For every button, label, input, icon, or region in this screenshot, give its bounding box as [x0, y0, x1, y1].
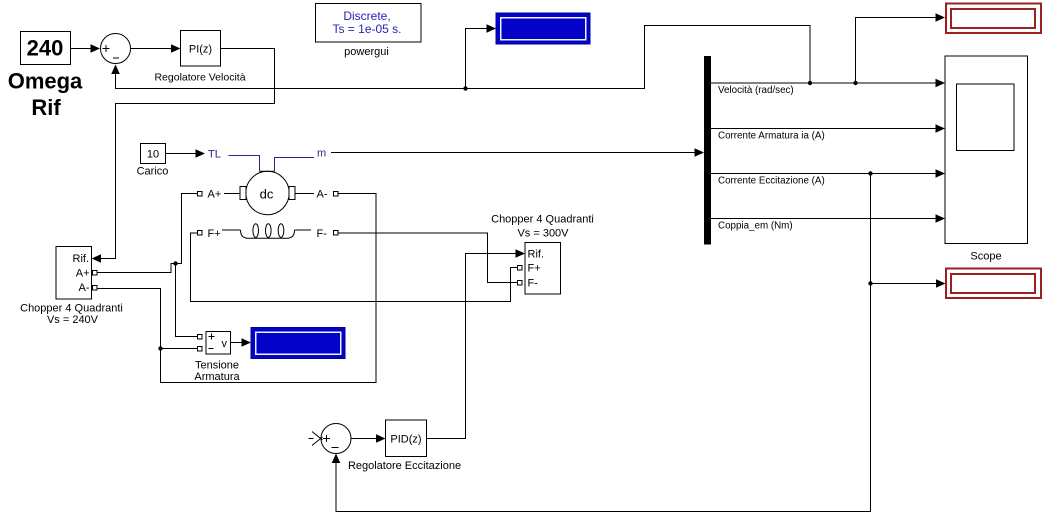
svg-text:A+: A+: [76, 268, 90, 280]
signal Coppia_em line: [711, 214, 945, 231]
svg-text:Coppia_em (Nm): Coppia_em (Nm): [718, 221, 793, 232]
node A- junction: [158, 346, 162, 350]
svg-text:A-: A-: [79, 282, 90, 294]
svg-text:240: 240: [27, 36, 64, 61]
field wire: machine F+ to chopper300 F+: [191, 233, 518, 302]
field inductor coil L1: [222, 224, 311, 238]
PID(z) field controller: [386, 420, 427, 457]
node field current tap (to red display2): [868, 281, 872, 285]
svg-text:Armatura: Armatura: [194, 371, 240, 383]
display2 (armature voltage display): [251, 328, 345, 359]
svg-text:Rif.: Rif.: [73, 253, 90, 265]
wire Velocita tap to red display1: [856, 13, 946, 83]
wire voltmeter to display2: [231, 338, 252, 347]
svg-text:Corrente Eccitazione (A): Corrente Eccitazione (A): [718, 176, 825, 187]
svg-text:10: 10: [147, 149, 159, 161]
scope block: [945, 56, 1028, 244]
dc machine M1: [240, 171, 295, 214]
svg-text:Rif: Rif: [31, 95, 61, 120]
svg-text:A-: A-: [317, 189, 328, 201]
red display D2 (field current): [946, 269, 1041, 299]
svg-text:Tensione: Tensione: [195, 360, 239, 372]
machine port A-: [295, 189, 338, 201]
signal Corrente Eccitazione line: [711, 169, 945, 186]
wire machine m to bus: [331, 148, 704, 157]
signal Velocita line: [711, 79, 945, 96]
svg-text:m: m: [317, 148, 326, 160]
wire Carico to TL: [166, 149, 206, 158]
svg-text:Corrente Armatura ia (A): Corrente Armatura ia (A): [718, 131, 825, 142]
chopper U2 (Chopper 4 Quadranti Vs=300V): [518, 243, 561, 295]
wire PID(z) to chopper300 Rif: [427, 249, 526, 438]
field wire: machine F- to chopper300 F-: [338, 233, 518, 283]
constant block 240: [21, 32, 71, 65]
machine port A+: [198, 189, 241, 201]
wire S2 to PID(z): [351, 434, 386, 443]
node on Velocita line (display tap): [853, 81, 857, 85]
svg-text:F+: F+: [208, 228, 221, 240]
node A+ junction: [173, 261, 177, 265]
bus selector bar: [704, 56, 711, 245]
svg-text:F+: F+: [528, 263, 541, 275]
svg-text:PID(z): PID(z): [390, 434, 421, 446]
label Tensione Armatura: [194, 360, 240, 384]
wire feedback to display1: [466, 24, 497, 88]
sum junction S1 (speed error): [101, 34, 131, 64]
label Chopper 4 Quadranti Vs=240V: [20, 303, 123, 327]
svg-text:Ts = 1e-05 s.: Ts = 1e-05 s.: [332, 22, 401, 36]
blue wire machine to m: [275, 158, 315, 172]
svg-text:F-: F-: [528, 278, 539, 290]
svg-text:TL: TL: [208, 149, 221, 161]
svg-text:Chopper 4 Quadranti: Chopper 4 Quadranti: [491, 214, 594, 226]
chopper U1 (Chopper 4 Quadranti Vs=240V): [56, 247, 97, 300]
svg-text:Regolatore Velocità: Regolatore Velocità: [154, 72, 245, 84]
machine port F+: [198, 228, 221, 240]
wire tap to red display2: [871, 279, 946, 288]
sum junction S2 (field current error): [321, 424, 351, 454]
svg-text:A+: A+: [208, 189, 222, 201]
armature wire: chopper240 A+ to machine A+ and voltmeter +: [97, 194, 198, 337]
svg-text:Regolatore Eccitazione: Regolatore Eccitazione: [348, 460, 461, 472]
field current feedback wire to sum S2: [332, 174, 871, 512]
svg-text:Discrete,: Discrete,: [343, 9, 390, 23]
svg-text:Scope: Scope: [970, 251, 1001, 263]
svg-text:Velocità (rad/sec): Velocità (rad/sec): [718, 85, 794, 96]
svg-text:Vs = 240V: Vs = 240V: [47, 314, 99, 326]
powergui block: [316, 4, 422, 43]
voltmeter V1: [198, 332, 231, 355]
constant block Carico (10): [141, 144, 166, 164]
PI(z) speed controller: [181, 31, 221, 67]
label Chopper 4 Quadranti Vs=300V: [491, 214, 594, 240]
speed feedback wire (Velocita to S1): [111, 26, 810, 89]
armature wire: chopper240 A- to machine A- and voltmeter -: [97, 194, 376, 383]
svg-text:dc: dc: [260, 187, 274, 202]
svg-text:powergui: powergui: [344, 46, 389, 58]
svg-text:Chopper 4 Quadranti: Chopper 4 Quadranti: [20, 303, 123, 315]
blue wire TL to machine: [229, 156, 260, 172]
node on Velocita line (feedback tap): [808, 81, 812, 85]
svg-text:PI(z): PI(z): [189, 44, 212, 56]
wire PI(z) output to chopper240 Rif: [92, 49, 275, 263]
label Omega Rif: [8, 69, 83, 121]
node junction on feedback for display1: [463, 86, 467, 90]
signal Corrente Armatura line: [711, 124, 945, 141]
wire S1 to PI(z): [131, 44, 181, 53]
wire 240 to sum S1: [71, 44, 101, 53]
red display D1 (top right): [946, 4, 1041, 34]
svg-text:Vs = 300V: Vs = 300V: [517, 228, 569, 240]
svg-text:Carico: Carico: [137, 166, 169, 178]
svg-text:F-: F-: [317, 228, 328, 240]
machine port F-: [317, 228, 339, 240]
svg-text:Omega: Omega: [8, 69, 83, 94]
unconnected input marker on S2: [309, 432, 323, 446]
svg-text:Rif.: Rif.: [528, 249, 545, 261]
display1 (speed display): [496, 13, 590, 44]
node field current tap (to PID feedback): [868, 171, 872, 175]
svg-text:v: v: [222, 338, 228, 350]
